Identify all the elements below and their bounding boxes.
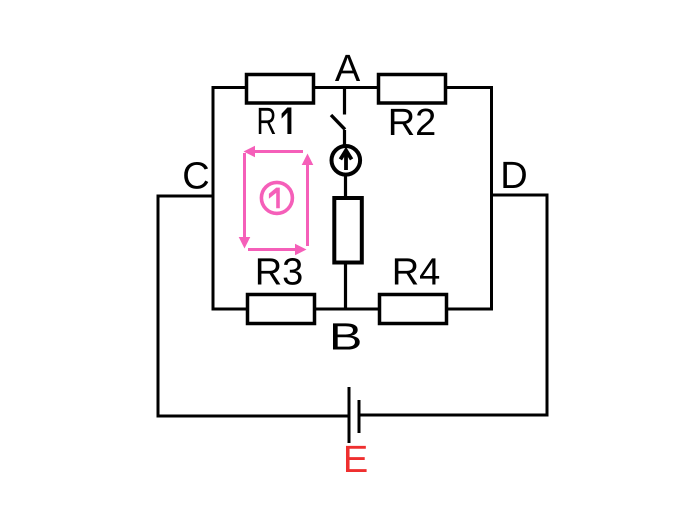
svg-text:C: C [182,156,209,198]
svg-text:E: E [343,439,368,481]
svg-text:D: D [500,155,527,197]
svg-text:R: R [257,101,277,143]
wire node D stub [492,194,548,197]
wire bottom-left to battery [157,415,350,418]
loop 1 right arrow [306,163,309,246]
resistor R2 box [379,75,446,104]
current source arrow shaft [344,152,348,170]
resistor R1 box [247,75,314,104]
label R1 digit 1 [282,108,292,135]
wire far-right vertical [546,194,549,417]
wire node C stub [158,195,213,198]
resistor R3 box [248,295,315,324]
wire bottom-right to battery [359,414,549,417]
resistor G vertical box [334,198,362,263]
resistor R4 box [380,295,447,324]
wire node A down to switch [343,87,346,115]
wire current source to galvanometer resistor [344,176,347,197]
loop 1 digit 1 [269,188,280,209]
svg-text:B: B [329,317,363,359]
loop 1 top arrow [252,150,303,153]
battery short plate [358,400,361,433]
wire far-left vertical [157,195,160,418]
loop 1 bottom arrow [248,248,297,251]
current source circle [332,146,361,175]
wire left inner vertical [212,86,215,311]
wire switch to current source [343,130,346,146]
svg-text:R3: R3 [255,252,304,294]
svg-text:R2: R2 [388,102,437,144]
battery long plate [348,387,351,443]
svg-text:R4: R4 [392,252,441,294]
current source arrow head [340,150,351,159]
wire right inner vertical [490,86,493,311]
wire bottom horizontal B row [213,308,492,311]
wire resistor to node B [344,264,347,309]
loop 1 circled number ring [261,182,292,213]
svg-text:A: A [335,48,361,90]
loop 1 left arrow [243,153,246,239]
wire top horizontal A row [213,86,492,89]
switch S blade [331,115,345,130]
